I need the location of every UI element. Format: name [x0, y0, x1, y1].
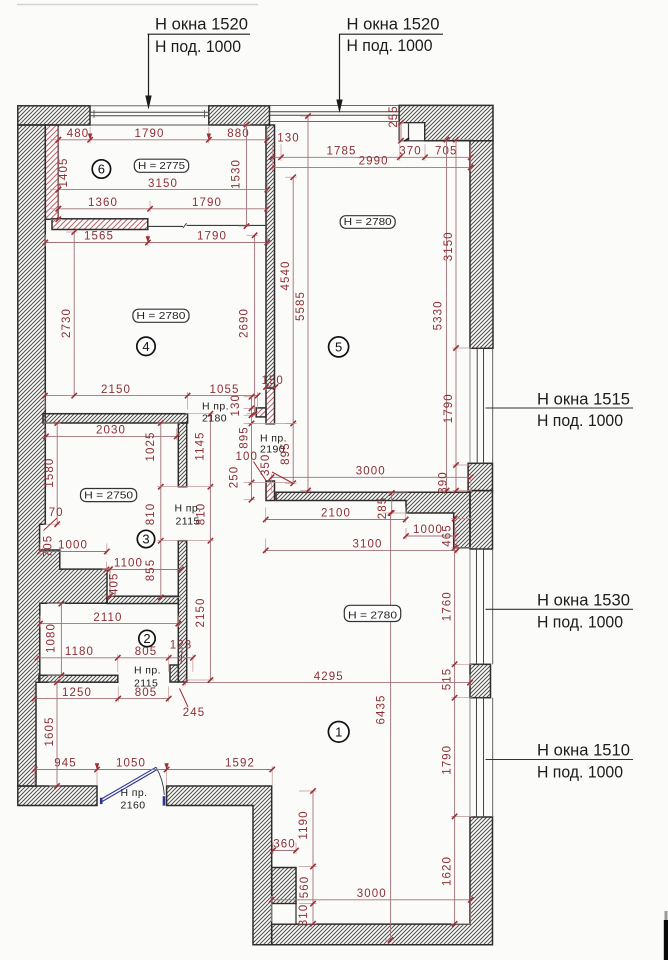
scan artifact: faint top line	[17, 4, 258, 6]
dim hall: 1605	[44, 680, 61, 789]
label door 2180	[202, 401, 229, 425]
svg-text:2115: 2115	[134, 678, 158, 690]
svg-text:Н пр.: Н пр.	[202, 401, 229, 413]
svg-text:70: 70	[49, 507, 64, 519]
dim room1 bottom: 3000	[269, 888, 473, 922]
svg-text:Н под. 1000: Н под. 1000	[537, 412, 623, 430]
svg-text:2690: 2690	[239, 308, 251, 338]
svg-text:855: 855	[145, 559, 157, 582]
red arrow ticks at entrance door jambs	[95, 763, 99, 770]
svg-text:895: 895	[239, 426, 251, 449]
wall: right exterior mid	[470, 491, 493, 549]
wall(new): room6 south partition	[52, 219, 148, 230]
svg-text:1180: 1180	[65, 646, 94, 658]
svg-text:3150: 3150	[443, 231, 455, 261]
wall: room1 SW jut block	[272, 868, 296, 904]
dim room2 door: 1250/805	[31, 687, 171, 703]
label: H okna 1510	[486, 742, 634, 782]
entrance door leaf (blue)	[100, 767, 165, 805]
svg-text:Н = 2775: Н = 2775	[138, 161, 185, 172]
partition line room6/room4 (thin)	[148, 223, 266, 228]
svg-text:100: 100	[236, 451, 259, 463]
svg-text:360: 360	[273, 839, 296, 851]
svg-text:2190: 2190	[260, 444, 285, 456]
svg-text:123: 123	[170, 640, 193, 652]
dim room2 west: 1080	[46, 601, 65, 678]
dim 245 with leader (room2 jamb)	[180, 689, 206, 720]
svg-text:130: 130	[277, 133, 300, 145]
room number 5	[329, 337, 349, 357]
dim room1 SW: 1190/560/310	[298, 788, 317, 926]
svg-text:2160: 2160	[121, 800, 146, 812]
svg-text:Н = 2780: Н = 2780	[344, 217, 392, 228]
svg-text:810: 810	[145, 503, 157, 526]
wall: left exterior with shaft	[18, 125, 107, 786]
svg-text:1565: 1565	[84, 231, 114, 243]
svg-text:Н окна 1510: Н окна 1510	[537, 742, 630, 760]
wall: right pier (390)	[468, 463, 492, 490]
dim room5 east: 3150/1790/390	[438, 137, 473, 494]
svg-text:1100: 1100	[114, 558, 143, 570]
wall: bottom-left band west of door	[18, 786, 97, 806]
wall: top-left corner pier	[18, 106, 90, 125]
wall: lower-left vertical + band east of door	[167, 786, 272, 945]
label: H okna 1520 (right) with arrow	[336, 16, 443, 114]
dim 100 with leader (corridor)	[236, 451, 266, 481]
wall: room3 north	[43, 414, 188, 423]
dim room1 SW: 360	[270, 839, 298, 854]
room number 6	[92, 160, 110, 178]
wall: right exterior lower + bottom	[272, 817, 493, 945]
svg-text:Н под. 1000: Н под. 1000	[537, 614, 623, 632]
dim room3 SW: 405	[102, 566, 121, 598]
svg-text:1000: 1000	[58, 540, 88, 552]
wall: room2 south	[39, 675, 118, 682]
svg-text:1785: 1785	[327, 146, 357, 158]
wall: room2 door jamb foot	[170, 665, 178, 682]
svg-text:130: 130	[230, 394, 242, 417]
window W1 (right, H okna 1515)	[470, 348, 493, 463]
svg-text:1790: 1790	[442, 745, 454, 775]
room number 4	[137, 337, 155, 355]
red arrow tick at 1565/1790 joint	[146, 236, 150, 243]
label box room3: H=2750	[81, 489, 137, 502]
dim room5 bottom: 3000	[269, 466, 474, 492]
dim 350 with leader (corridor)	[260, 454, 293, 483]
dim room4 top: 1565/1790	[43, 231, 270, 246]
wall: right exterior upper	[470, 141, 493, 348]
svg-text:Н = 2750: Н = 2750	[84, 490, 133, 501]
svg-text:3000: 3000	[357, 888, 387, 900]
dim room5 west: 4540/895	[280, 175, 297, 487]
room number 1	[328, 722, 349, 743]
wall: room3/room2 east lower	[178, 541, 186, 682]
wall(new): room6 west partition	[45, 125, 58, 219]
svg-text:945: 945	[54, 758, 77, 770]
dim room5 west: 5585	[295, 113, 312, 493]
dim room3 SW: 1100	[104, 558, 184, 573]
door 2115 room3 header/footer extension lines	[158, 486, 212, 488]
svg-text:2100: 2100	[321, 508, 351, 520]
window W2 (right, H okna 1530)	[470, 549, 493, 664]
dim room2: 2110	[37, 612, 181, 627]
svg-text:2030: 2030	[96, 425, 126, 437]
svg-text:Н пр.: Н пр.	[121, 787, 148, 799]
dim room1 east: 465/1760/515/1790/1620	[442, 516, 473, 927]
dim corridor east: 130/895/250	[230, 394, 255, 502]
svg-text:5330: 5330	[433, 300, 445, 330]
svg-text:Н пр.: Н пр.	[134, 665, 161, 677]
svg-text:1250: 1250	[62, 687, 92, 699]
svg-text:2150: 2150	[195, 598, 207, 628]
svg-text:705: 705	[42, 535, 54, 558]
svg-text:405: 405	[109, 572, 121, 595]
dim corridor: 3100	[263, 538, 460, 554]
wall: top-right corner notch outline	[399, 123, 425, 141]
svg-text:1620: 1620	[442, 856, 454, 886]
window B (top, room5)	[270, 106, 400, 122]
svg-text:245: 245	[183, 707, 206, 719]
wall: room3 east upper	[178, 423, 186, 487]
svg-text:150: 150	[261, 375, 284, 387]
label: H okna 1515	[486, 391, 634, 431]
svg-text:1190: 1190	[298, 810, 310, 839]
dim corridor: 2100	[263, 508, 408, 524]
dim room4 east: 2690	[239, 233, 259, 417]
wall(new): divider above door 2190	[266, 388, 275, 424]
svg-text:2990: 2990	[359, 156, 389, 168]
svg-text:1790: 1790	[443, 393, 455, 423]
label door 2190	[260, 433, 287, 456]
label box room1: H=2780	[344, 605, 400, 621]
svg-text:515: 515	[442, 668, 454, 691]
svg-text:1790: 1790	[192, 197, 222, 209]
svg-text:250: 250	[229, 466, 241, 489]
svg-text:560: 560	[299, 876, 311, 899]
dim room1: 4295	[183, 671, 473, 686]
dim room6 bottom: 1360/1790	[56, 197, 270, 212]
wall: top pier between windows	[209, 106, 270, 125]
svg-text:4295: 4295	[314, 671, 344, 683]
dim room5 east: 5330	[433, 137, 451, 493]
svg-text:6: 6	[98, 162, 105, 177]
svg-text:Н окна 1530: Н окна 1530	[537, 592, 630, 610]
dim room1: 6435	[376, 510, 395, 942]
svg-text:1000: 1000	[413, 524, 443, 536]
svg-text:3100: 3100	[353, 539, 383, 551]
wall: room6/5 - room4/5 divider	[266, 125, 275, 388]
dim step: 285	[377, 490, 408, 519]
svg-text:1: 1	[335, 724, 342, 739]
dim chain room6 top: 480/1790/880	[56, 127, 270, 144]
svg-text:Н окна 1520: Н окна 1520	[155, 16, 248, 34]
wall: notch divider line + tick	[408, 123, 410, 140]
svg-text:480: 480	[67, 128, 90, 140]
svg-text:465: 465	[442, 524, 454, 547]
label: H okna 1530	[486, 592, 634, 632]
svg-text:1080: 1080	[46, 623, 58, 653]
wall(new): divider foot at corridor	[256, 408, 266, 417]
svg-text:1050: 1050	[116, 758, 146, 770]
svg-text:Н окна 1520: Н окна 1520	[347, 16, 440, 34]
svg-text:2180: 2180	[202, 413, 227, 425]
dim corridor west: 1145/810/2150	[185, 411, 214, 683]
label door 2115 room3	[175, 503, 202, 528]
svg-text:805: 805	[135, 646, 158, 658]
svg-text:2110: 2110	[93, 612, 122, 624]
svg-text:4540: 4540	[280, 261, 292, 291]
svg-text:1405: 1405	[58, 158, 70, 188]
svg-text:1025: 1025	[145, 432, 157, 462]
svg-text:Н под. 1000: Н под. 1000	[155, 38, 241, 56]
label: H okna 1520 (left) with arrow	[145, 16, 250, 110]
red arrow ticks at window A edges	[88, 134, 92, 141]
svg-text:390: 390	[438, 471, 450, 494]
svg-text:4: 4	[142, 339, 149, 354]
svg-text:1605: 1605	[44, 717, 56, 747]
room number 3	[137, 530, 154, 547]
svg-text:2150: 2150	[101, 384, 131, 396]
label box room4: H=2780	[133, 309, 189, 322]
wall: top-right corner block	[399, 105, 493, 140]
svg-text:Н под. 1000: Н под. 1000	[537, 764, 623, 782]
wall: right pier (515)	[470, 664, 491, 697]
window A (top, room6)	[90, 106, 209, 125]
scan artifact: black mark bottom-right	[664, 920, 668, 960]
dim 70 with leader (room3 west step)	[44, 507, 64, 531]
svg-text:370: 370	[399, 146, 422, 158]
label box room5: H=2780	[340, 216, 395, 229]
svg-text:1360: 1360	[88, 197, 118, 209]
dim room6 west: 1405	[50, 137, 70, 222]
dim room1 NE: 1000	[403, 524, 458, 539]
dim room6: 3150	[56, 178, 270, 193]
svg-text:310: 310	[298, 904, 310, 927]
dim entrance: 945/1050/1592	[32, 758, 275, 786]
wall: room1 SW white pocket	[272, 904, 296, 925]
label box room6: H=2775	[134, 159, 188, 172]
svg-text:2730: 2730	[61, 308, 73, 338]
label door 2115 room2	[134, 665, 161, 690]
dim room4 bottom: 2150/1055	[42, 384, 260, 410]
svg-text:Н пр.: Н пр.	[175, 503, 202, 515]
dim room5 top: 2990	[270, 156, 474, 171]
svg-text:3: 3	[142, 532, 149, 547]
window W3 (right, H okna 1510)	[470, 698, 493, 817]
dim 123 with leader (room2 jamb)	[170, 640, 193, 665]
svg-text:5: 5	[335, 340, 342, 355]
svg-text:Н = 2780: Н = 2780	[136, 311, 185, 322]
svg-text:1790: 1790	[135, 128, 165, 140]
svg-text:Н окна 1515: Н окна 1515	[537, 391, 630, 409]
svg-text:1760: 1760	[442, 591, 454, 621]
svg-text:1592: 1592	[225, 758, 255, 770]
svg-text:6435: 6435	[376, 695, 388, 725]
dim room2 door: 1180/805/123	[35, 646, 196, 672]
dim room3 west: 1580	[43, 420, 61, 527]
room number 2	[139, 630, 155, 646]
dim TR notch: 255	[388, 105, 404, 143]
svg-text:5585: 5585	[295, 291, 307, 321]
wall: room5 south + room1 NE step	[276, 492, 470, 548]
dim room3: 2030	[43, 425, 179, 440]
dim room4 west: 2730	[61, 229, 78, 398]
dim room3 SW: 1000	[37, 540, 109, 555]
svg-text:2: 2	[143, 631, 150, 646]
svg-text:3000: 3000	[356, 466, 386, 478]
svg-text:1580: 1580	[44, 458, 56, 488]
wall: partition room3/room2	[107, 596, 178, 603]
svg-text:285: 285	[377, 497, 389, 520]
svg-text:255: 255	[388, 105, 400, 128]
svg-text:Н = 2780: Н = 2780	[348, 610, 397, 621]
svg-text:Н под. 1000: Н под. 1000	[347, 37, 433, 55]
dim room6 east: 1530	[231, 122, 251, 229]
svg-text:1790: 1790	[197, 231, 227, 243]
svg-text:2115: 2115	[176, 515, 200, 527]
svg-text:350: 350	[260, 454, 272, 477]
dim divider: 150	[261, 375, 284, 390]
wall(new): divider below door 2190	[266, 481, 275, 501]
label door 2160 entrance	[121, 787, 148, 812]
svg-text:3150: 3150	[148, 178, 178, 190]
svg-text:1145: 1145	[194, 431, 206, 460]
svg-text:1530: 1530	[231, 159, 243, 189]
dim room3 east: 1025/810/855	[145, 420, 181, 600]
dim chain room5 top: 1785/370/705	[270, 144, 474, 161]
door 2190 header/footer extension lines	[248, 423, 295, 425]
